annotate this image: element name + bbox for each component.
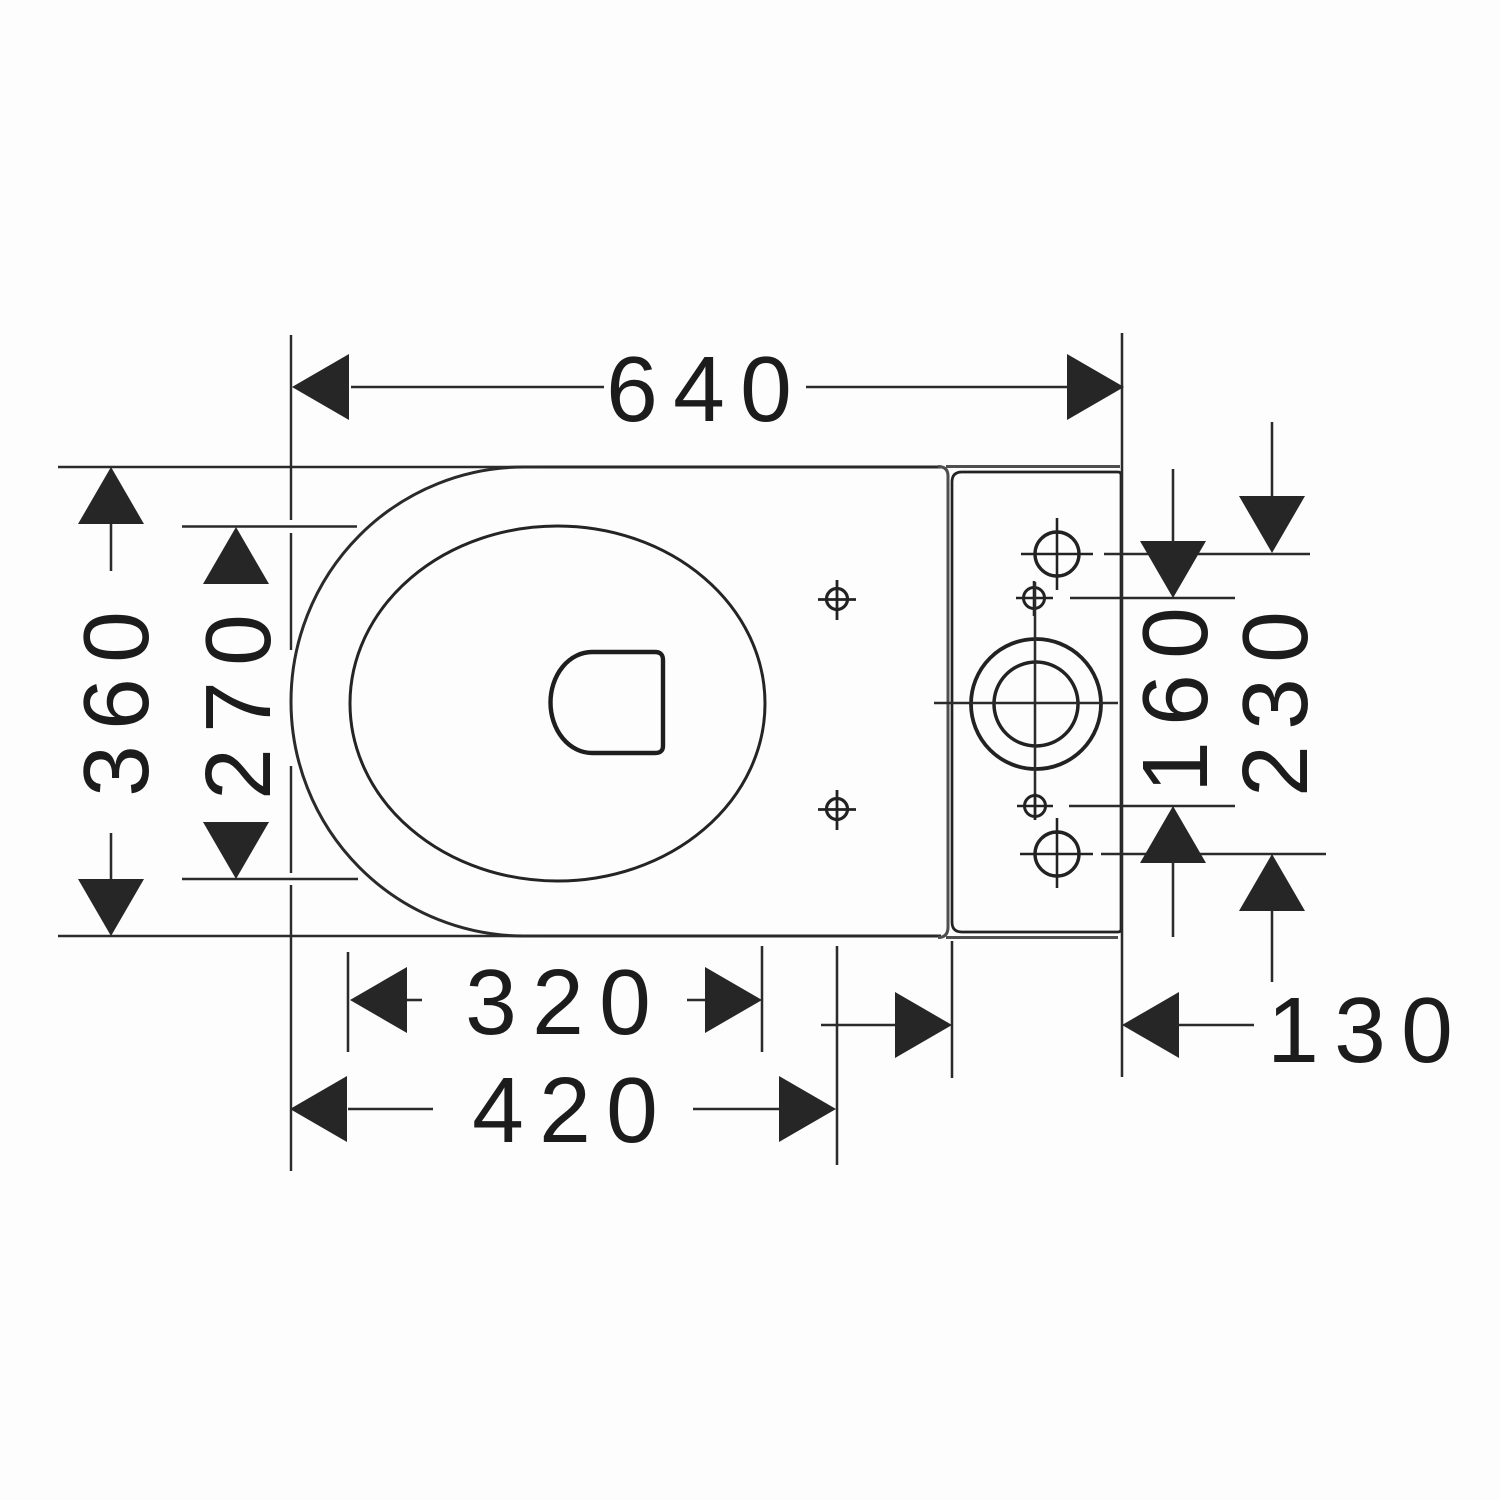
dimension 130 tail right bbox=[1177, 1024, 1254, 1027]
arrow 230 top down bbox=[1239, 496, 1305, 553]
bowl envelope top segment over plate bbox=[946, 465, 1120, 468]
svg-text:6: 6 bbox=[64, 678, 168, 730]
svg-text:0: 0 bbox=[740, 337, 792, 441]
svg-text:0: 0 bbox=[1223, 611, 1327, 663]
bowl envelope bottom segment over plate bbox=[946, 936, 1118, 939]
tail 160 bottom bbox=[1172, 861, 1175, 937]
dimension 420 tail right bbox=[693, 1108, 780, 1111]
svg-text:0: 0 bbox=[186, 614, 290, 666]
svg-text:1: 1 bbox=[1123, 741, 1227, 793]
svg-text:0: 0 bbox=[599, 950, 651, 1054]
tail 360 down bbox=[110, 833, 113, 879]
arrow 420 right bbox=[779, 1076, 836, 1142]
extension line 270 bottom y879 bbox=[182, 878, 358, 881]
label 360 rotated bbox=[64, 611, 168, 797]
arrow 360 down bbox=[78, 879, 144, 936]
label 230 rotated bbox=[1223, 611, 1327, 797]
flush valve inner circle bbox=[994, 662, 1078, 746]
extension line hole y854 bbox=[1101, 853, 1326, 856]
valve vertical centerline bbox=[1034, 582, 1037, 820]
arrow 320 left bbox=[350, 967, 407, 1033]
arrow 640 left bbox=[292, 354, 349, 420]
extension line hole y598 bbox=[1070, 597, 1235, 600]
dimension 640 line right part bbox=[806, 386, 1067, 389]
bowl back edge (hidden line, gray) bbox=[938, 467, 948, 938]
label 160 rotated bbox=[1123, 607, 1227, 793]
arrow 420 left bbox=[290, 1076, 347, 1142]
extension line hole y554 bbox=[1104, 553, 1310, 556]
dimension 320 tail right bbox=[687, 999, 706, 1002]
svg-text:3: 3 bbox=[64, 745, 168, 797]
svg-text:7: 7 bbox=[186, 681, 290, 733]
plate small hole top bbox=[1016, 581, 1053, 616]
flush valve outer circle bbox=[971, 639, 1101, 769]
tail 230 bottom bbox=[1271, 910, 1274, 982]
dimension 640 line left part bbox=[351, 386, 604, 389]
arrow 130 pointing right bbox=[895, 992, 952, 1058]
svg-text:0: 0 bbox=[1401, 978, 1453, 1082]
extension line top y467 bbox=[58, 466, 540, 469]
svg-text:0: 0 bbox=[1123, 607, 1227, 659]
extension line 320 left x348 bbox=[347, 952, 350, 1052]
extension line 320 right x762 bbox=[761, 946, 764, 1052]
svg-text:0: 0 bbox=[606, 1058, 658, 1162]
arrow 160 bottom up bbox=[1140, 806, 1206, 863]
tail 360 up bbox=[110, 524, 113, 571]
dimension 320 tail left bbox=[406, 999, 422, 1002]
svg-text:4: 4 bbox=[472, 1058, 524, 1162]
extension line left edge x291 lower bbox=[290, 766, 292, 873]
svg-text:3: 3 bbox=[465, 950, 517, 1054]
plate small hole bottom bbox=[1017, 793, 1053, 820]
inner bowl rim ellipse bbox=[350, 526, 765, 881]
extension line hole y806 bbox=[1069, 805, 1235, 808]
drain hole bbox=[550, 652, 663, 753]
seat bolt crosshair bottom on bowl bbox=[818, 790, 856, 830]
extension line 130 left x952 bbox=[951, 941, 954, 1078]
arrow 640 right bbox=[1067, 354, 1124, 420]
extension line left edge x291 upper bbox=[290, 335, 292, 520]
svg-text:6: 6 bbox=[1123, 674, 1227, 726]
valve horizontal centerline bbox=[934, 702, 1118, 705]
plate bolt hole crosshair top bbox=[1021, 518, 1093, 590]
tail 160 top bbox=[1172, 469, 1175, 543]
arrow 230 bottom up bbox=[1239, 854, 1305, 911]
svg-text:3: 3 bbox=[1223, 678, 1327, 730]
seat bolt crosshair top on bowl bbox=[818, 580, 856, 620]
arrow 270 up bbox=[203, 527, 269, 584]
tail 230 top bbox=[1271, 422, 1274, 497]
arrow 130 pointing left bbox=[1122, 992, 1179, 1058]
svg-text:2: 2 bbox=[1223, 745, 1327, 797]
dimension 130 tail left bbox=[821, 1024, 897, 1027]
extension line 270 top y526 bbox=[182, 525, 357, 528]
plate bolt hole crosshair bottom bbox=[1020, 818, 1093, 888]
extension line right edge x1122 bbox=[1121, 333, 1124, 1077]
svg-text:1: 1 bbox=[1267, 978, 1319, 1082]
svg-text:0: 0 bbox=[64, 611, 168, 663]
svg-text:3: 3 bbox=[1334, 978, 1386, 1082]
svg-text:4: 4 bbox=[673, 337, 725, 441]
svg-text:2: 2 bbox=[186, 748, 290, 800]
label 270 rotated bbox=[186, 614, 290, 800]
dimension 420 tail left bbox=[348, 1108, 433, 1111]
arrow 360 up bbox=[78, 467, 144, 524]
svg-text:6: 6 bbox=[606, 337, 658, 441]
bowl outer outline bbox=[291, 467, 941, 936]
svg-text:2: 2 bbox=[532, 950, 584, 1054]
svg-text:2: 2 bbox=[539, 1058, 591, 1162]
arrow 160 top down bbox=[1140, 541, 1206, 598]
extension line bottom y936 bbox=[58, 935, 540, 938]
arrow 320 right bbox=[705, 967, 762, 1033]
tank plate outline bbox=[952, 472, 1121, 932]
extension line 420 right x837 bbox=[836, 946, 839, 1165]
arrow 270 down bbox=[203, 822, 269, 879]
